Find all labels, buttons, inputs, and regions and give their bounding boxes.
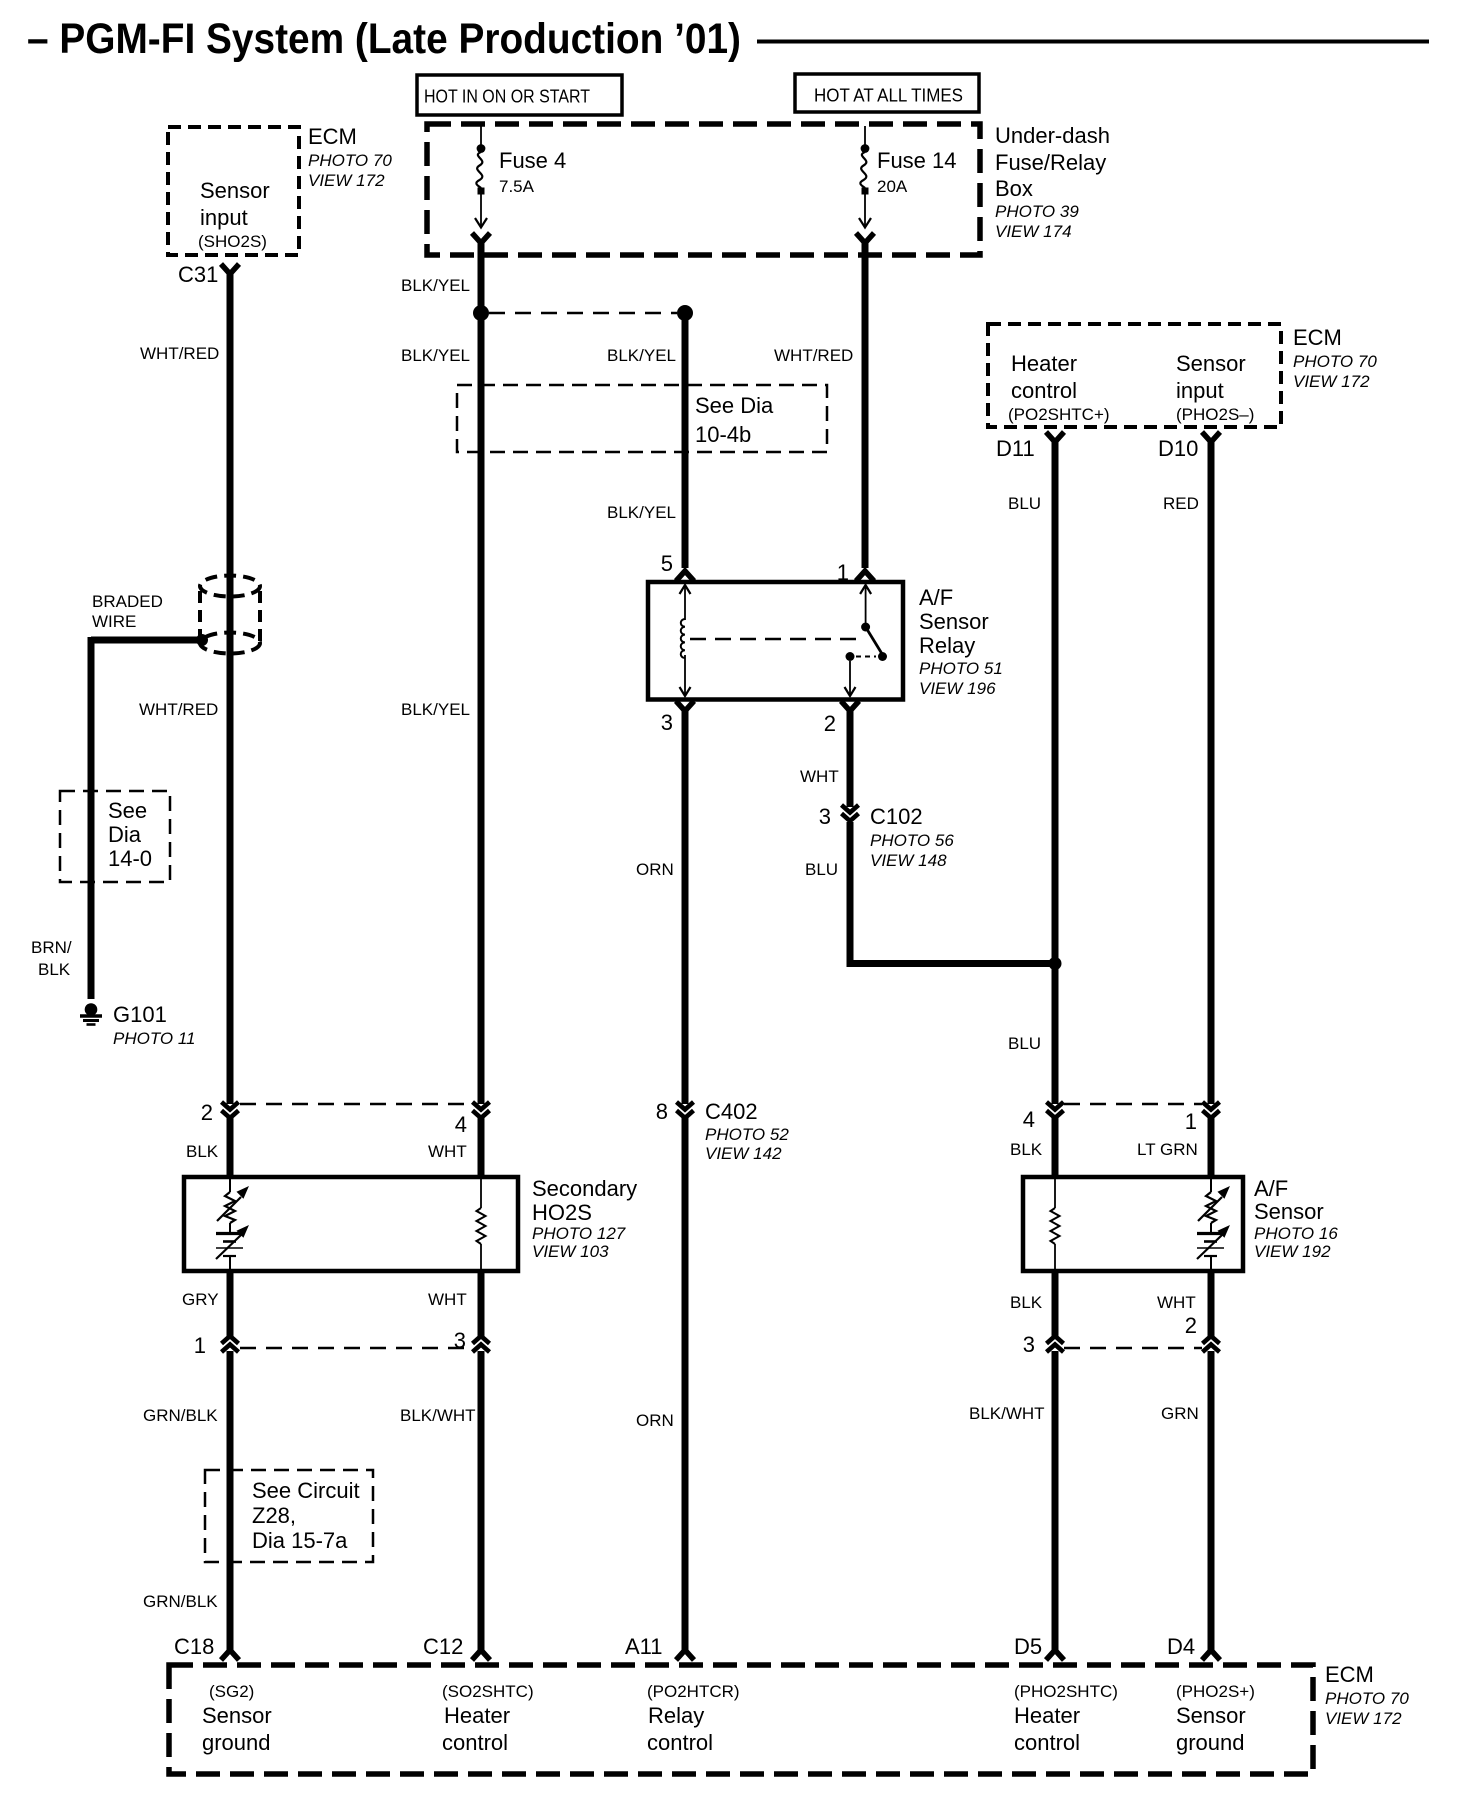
svg-text:BLK/YEL: BLK/YEL xyxy=(401,700,470,719)
svg-text:D10: D10 xyxy=(1158,436,1198,461)
svg-text:WIRE: WIRE xyxy=(92,612,136,631)
svg-text:GRN: GRN xyxy=(1161,1404,1199,1423)
svg-text:Fuse/Relay: Fuse/Relay xyxy=(995,150,1106,175)
svg-text:WHT: WHT xyxy=(800,767,839,786)
svg-text:3: 3 xyxy=(819,804,831,829)
svg-text:Heater: Heater xyxy=(1011,351,1077,376)
svg-text:Box: Box xyxy=(995,176,1033,201)
svg-text:20A: 20A xyxy=(877,177,908,196)
svg-text:Heater: Heater xyxy=(444,1703,510,1728)
svg-text:4: 4 xyxy=(1023,1107,1035,1132)
svg-text:WHT/RED: WHT/RED xyxy=(774,346,853,365)
svg-text:BLK: BLK xyxy=(186,1142,219,1161)
svg-text:Dia 15-7a: Dia 15-7a xyxy=(252,1528,348,1553)
svg-text:control: control xyxy=(442,1730,508,1755)
svg-text:Dia: Dia xyxy=(108,822,142,847)
svg-text:8: 8 xyxy=(656,1099,668,1124)
svg-text:VIEW 174: VIEW 174 xyxy=(995,222,1072,241)
svg-text:Sensor: Sensor xyxy=(1176,351,1246,376)
svg-text:VIEW 192: VIEW 192 xyxy=(1254,1242,1331,1261)
svg-text:C18: C18 xyxy=(174,1634,214,1659)
svg-text:3: 3 xyxy=(454,1328,466,1353)
svg-text:GRN/BLK: GRN/BLK xyxy=(143,1406,218,1425)
svg-text:Under-dash: Under-dash xyxy=(995,123,1110,148)
svg-text:(SG2): (SG2) xyxy=(209,1682,254,1701)
svg-text:ECM: ECM xyxy=(1293,325,1342,350)
svg-text:Fuse 4: Fuse 4 xyxy=(499,148,566,173)
svg-text:7.5A: 7.5A xyxy=(499,177,535,196)
svg-text:PHOTO 52: PHOTO 52 xyxy=(705,1125,789,1144)
svg-text:Secondary: Secondary xyxy=(532,1176,637,1201)
svg-text:WHT: WHT xyxy=(428,1142,467,1161)
svg-text:C31: C31 xyxy=(178,262,218,287)
svg-text:1: 1 xyxy=(1185,1109,1197,1134)
svg-text:D5: D5 xyxy=(1014,1634,1042,1659)
svg-text:VIEW 172: VIEW 172 xyxy=(1325,1709,1402,1728)
svg-text:RED: RED xyxy=(1163,494,1199,513)
svg-text:BLK/WHT: BLK/WHT xyxy=(969,1404,1045,1423)
svg-text:WHT/RED: WHT/RED xyxy=(139,700,218,719)
svg-text:HO2S: HO2S xyxy=(532,1200,592,1225)
svg-text:WHT: WHT xyxy=(428,1290,467,1309)
svg-text:ground: ground xyxy=(202,1730,271,1755)
svg-text:BLU: BLU xyxy=(1008,1034,1041,1053)
svg-text:D4: D4 xyxy=(1167,1634,1195,1659)
svg-text:Relay: Relay xyxy=(648,1703,704,1728)
svg-text:HOT IN ON OR START: HOT IN ON OR START xyxy=(424,87,590,107)
svg-text:VIEW 148: VIEW 148 xyxy=(870,851,947,870)
svg-text:LT GRN: LT GRN xyxy=(1137,1140,1198,1159)
svg-text:14-0: 14-0 xyxy=(108,846,152,871)
svg-text:VIEW 103: VIEW 103 xyxy=(532,1242,609,1261)
svg-text:PHOTO 70: PHOTO 70 xyxy=(1325,1689,1409,1708)
svg-text:D11: D11 xyxy=(996,436,1035,461)
svg-text:ORN: ORN xyxy=(636,1411,674,1430)
svg-text:Sensor: Sensor xyxy=(1176,1703,1246,1728)
svg-text:BLU: BLU xyxy=(1008,494,1041,513)
svg-text:Z28,: Z28, xyxy=(252,1503,296,1528)
svg-text:VIEW 172: VIEW 172 xyxy=(1293,372,1370,391)
svg-text:3: 3 xyxy=(1023,1332,1035,1357)
svg-text:A/F: A/F xyxy=(1254,1176,1288,1201)
svg-text:GRY: GRY xyxy=(182,1290,219,1309)
svg-text:WHT/RED: WHT/RED xyxy=(140,344,219,363)
svg-text:PHOTO 11: PHOTO 11 xyxy=(113,1029,196,1048)
svg-text:– PGM-FI System (Late Producti: – PGM-FI System (Late Production ’01) xyxy=(27,15,741,63)
svg-text:5: 5 xyxy=(661,551,673,576)
svg-text:See: See xyxy=(108,798,147,823)
svg-text:Sensor: Sensor xyxy=(202,1703,272,1728)
svg-text:WHT: WHT xyxy=(1157,1293,1196,1312)
svg-text:BLK/YEL: BLK/YEL xyxy=(401,346,470,365)
svg-text:Sensor: Sensor xyxy=(200,178,270,203)
svg-text:C12: C12 xyxy=(423,1634,463,1659)
svg-text:ECM: ECM xyxy=(308,124,357,149)
svg-text:BLK: BLK xyxy=(1010,1140,1043,1159)
svg-text:PHOTO 70: PHOTO 70 xyxy=(1293,352,1377,371)
svg-text:BRADED: BRADED xyxy=(92,592,163,611)
svg-text:input: input xyxy=(1176,378,1224,403)
svg-text:BLK/YEL: BLK/YEL xyxy=(607,346,676,365)
svg-text:(PHO2SHTC): (PHO2SHTC) xyxy=(1014,1682,1118,1701)
svg-text:2: 2 xyxy=(201,1100,213,1125)
svg-text:4: 4 xyxy=(455,1112,467,1137)
svg-text:BLU: BLU xyxy=(805,860,838,879)
svg-text:PHOTO 39: PHOTO 39 xyxy=(995,202,1079,221)
svg-text:BRN/: BRN/ xyxy=(31,938,72,957)
svg-text:BLK/YEL: BLK/YEL xyxy=(607,503,676,522)
svg-text:control: control xyxy=(1014,1730,1080,1755)
svg-text:2: 2 xyxy=(1185,1313,1197,1338)
svg-text:Sensor: Sensor xyxy=(919,609,989,634)
svg-text:control: control xyxy=(1011,378,1077,403)
svg-text:Sensor: Sensor xyxy=(1254,1199,1324,1224)
svg-text:(PHO2S–): (PHO2S–) xyxy=(1176,405,1254,424)
svg-text:GRN/BLK: GRN/BLK xyxy=(143,1592,218,1611)
svg-text:2: 2 xyxy=(824,711,836,736)
svg-text:BLK/YEL: BLK/YEL xyxy=(401,276,470,295)
svg-text:G101: G101 xyxy=(113,1002,167,1027)
svg-text:BLK/WHT: BLK/WHT xyxy=(400,1406,476,1425)
svg-text:input: input xyxy=(200,205,248,230)
svg-text:(PHO2S+): (PHO2S+) xyxy=(1176,1682,1255,1701)
svg-text:ground: ground xyxy=(1176,1730,1245,1755)
svg-text:1: 1 xyxy=(837,560,849,585)
svg-text:HOT AT ALL TIMES: HOT AT ALL TIMES xyxy=(814,86,963,106)
svg-text:PHOTO 56: PHOTO 56 xyxy=(870,831,954,850)
svg-text:A11: A11 xyxy=(625,1634,663,1659)
svg-text:Heater: Heater xyxy=(1014,1703,1080,1728)
svg-text:A/F: A/F xyxy=(919,585,953,610)
svg-text:Relay: Relay xyxy=(919,633,975,658)
svg-text:(SHO2S): (SHO2S) xyxy=(198,232,267,251)
svg-text:10-4b: 10-4b xyxy=(695,422,751,447)
svg-text:VIEW 142: VIEW 142 xyxy=(705,1144,782,1163)
svg-text:PHOTO 127: PHOTO 127 xyxy=(532,1224,626,1243)
svg-text:PHOTO 51: PHOTO 51 xyxy=(919,659,1003,678)
svg-text:C102: C102 xyxy=(870,804,923,829)
svg-text:See Circuit: See Circuit xyxy=(252,1478,360,1503)
svg-text:PHOTO 70: PHOTO 70 xyxy=(308,151,392,170)
svg-text:Fuse 14: Fuse 14 xyxy=(877,148,957,173)
svg-text:ORN: ORN xyxy=(636,860,674,879)
svg-text:(PO2SHTC+): (PO2SHTC+) xyxy=(1008,405,1110,424)
svg-text:(SO2SHTC): (SO2SHTC) xyxy=(442,1682,534,1701)
svg-text:(PO2HTCR): (PO2HTCR) xyxy=(647,1682,740,1701)
svg-text:1: 1 xyxy=(194,1333,206,1358)
svg-text:See Dia: See Dia xyxy=(695,393,774,418)
svg-text:VIEW 172: VIEW 172 xyxy=(308,171,385,190)
svg-text:ECM: ECM xyxy=(1325,1662,1374,1687)
svg-text:3: 3 xyxy=(661,710,673,735)
svg-text:PHOTO 16: PHOTO 16 xyxy=(1254,1224,1338,1243)
svg-text:control: control xyxy=(647,1730,713,1755)
svg-text:C402: C402 xyxy=(705,1099,758,1124)
svg-text:BLK: BLK xyxy=(38,960,71,979)
svg-text:BLK: BLK xyxy=(1010,1293,1043,1312)
svg-text:VIEW 196: VIEW 196 xyxy=(919,679,996,698)
